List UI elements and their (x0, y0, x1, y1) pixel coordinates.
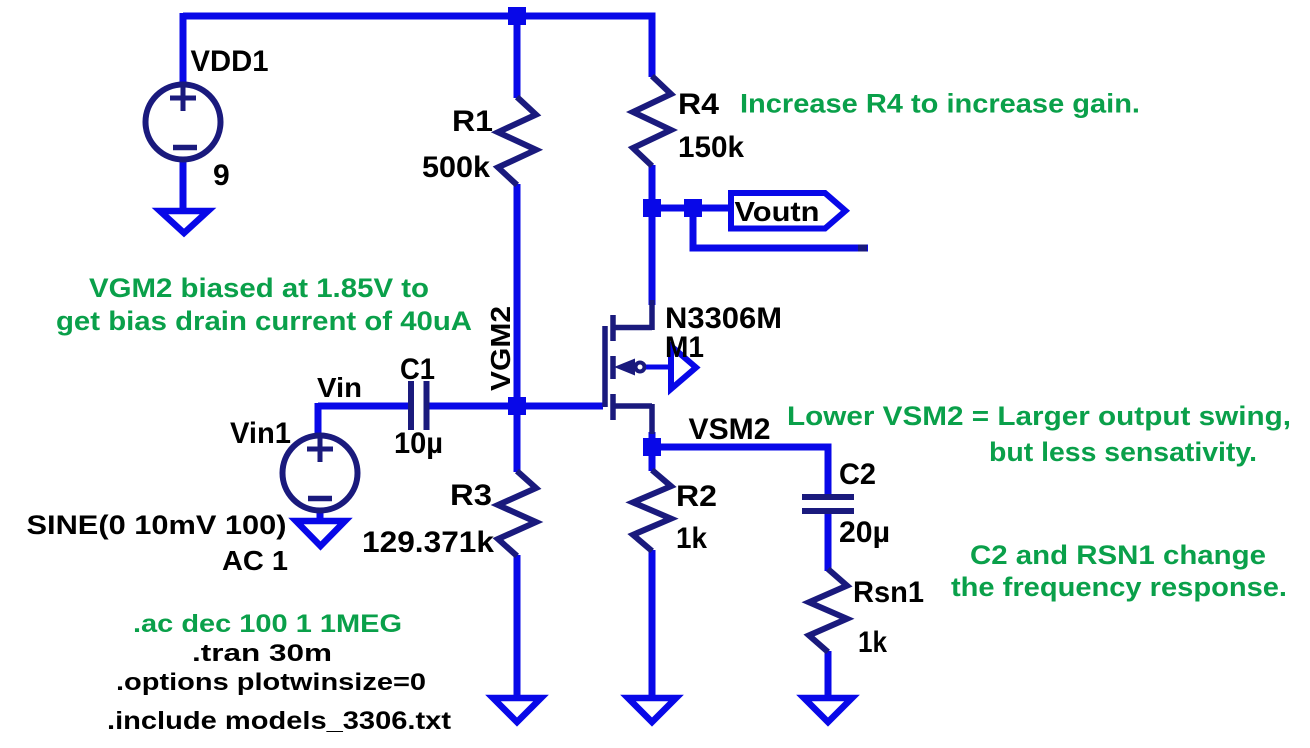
transistor M1 bulk arrow (614, 359, 635, 376)
svg-text:9: 9 (213, 159, 230, 192)
wire R1 to node VGM2 (514, 184, 521, 407)
ground (R3 column) (493, 698, 541, 722)
port flag Voutn (731, 193, 846, 229)
svg-text:get bias drain current of 40uA: get bias drain current of 40uA (56, 306, 472, 336)
svg-text:20µ: 20µ (839, 516, 890, 549)
ground (Vin1) (296, 521, 345, 546)
svg-text:C2 and RSN1 change: C2 and RSN1 change (970, 540, 1266, 570)
wire C2 corner drop (825, 444, 832, 496)
voltage source Vin1 (283, 436, 358, 511)
junction node Voutn / R4 (643, 199, 661, 217)
resistor R2 (633, 470, 671, 551)
wire R4 top drop (649, 16, 656, 77)
svg-text:VSM2: VSM2 (689, 413, 771, 446)
wire R3 to ground (514, 555, 521, 700)
svg-text:.include models_3306.txt: .include models_3306.txt (107, 707, 452, 735)
svg-text:10µ: 10µ (394, 427, 443, 460)
svg-text:Vin: Vin (317, 372, 362, 403)
wire R4 to node Voutn (649, 165, 656, 208)
wire Voutn stub down (693, 208, 868, 248)
svg-text:.ac dec 100 1 1MEG: .ac dec 100 1 1MEG (133, 610, 402, 638)
wire VDD1 to ground (180, 160, 187, 212)
svg-text:150k: 150k (678, 131, 744, 164)
svg-text:1k: 1k (858, 626, 887, 659)
svg-text:129.371k: 129.371k (362, 526, 494, 559)
wire R1 top drop (514, 16, 521, 98)
node arrow (bulk) (671, 346, 696, 389)
svg-text:1k: 1k (676, 522, 707, 555)
resistor Rsn1 (809, 569, 847, 652)
wire VGM2 node to R3 (514, 406, 521, 472)
ground (VDD1) (160, 211, 208, 233)
wire VDD1 drop (180, 13, 187, 84)
svg-text:R1: R1 (452, 105, 493, 138)
capacitor C1 (411, 381, 427, 430)
wire C1 to VGM2 node (429, 403, 517, 410)
svg-text:.tran 30m: .tran 30m (192, 640, 332, 667)
junction node VSM2 (643, 438, 661, 456)
svg-text:C1: C1 (400, 353, 435, 386)
resistor R4 (633, 76, 671, 166)
svg-text:Voutn: Voutn (735, 196, 820, 227)
junction node top rail / R1 (508, 7, 526, 25)
wire Vin1 drop (315, 403, 322, 436)
ground (R2 column) (628, 698, 676, 722)
voltage source VDD1 (146, 85, 221, 160)
svg-text:SINE(0 10mV 100): SINE(0 10mV 100) (27, 510, 287, 540)
junction node Voutn flag stub (684, 199, 702, 217)
svg-text:Lower VSM2 = Larger output swi: Lower VSM2 = Larger output swing, (787, 401, 1291, 431)
svg-text:Rsn1: Rsn1 (853, 576, 924, 609)
wire M1 bulk to arrow (646, 365, 670, 370)
ground (Rsn1 column) (804, 698, 852, 722)
wire M1 source down (649, 432, 656, 447)
wire VSM2 node to R2 (649, 447, 656, 471)
svg-text:500k: 500k (422, 151, 490, 184)
resistor R1 (498, 97, 536, 185)
wire R2 to ground (649, 550, 656, 700)
svg-text:VGM2: VGM2 (485, 306, 516, 391)
resistor R3 (498, 471, 536, 556)
capacitor C2 (802, 497, 854, 511)
wire Voutn node to M1 drain (649, 208, 656, 305)
svg-text:R4: R4 (678, 88, 719, 121)
wire end tip (858, 245, 867, 252)
wire Voutn node to flag (652, 205, 729, 212)
svg-text:but less sensativity.: but less sensativity. (989, 437, 1257, 467)
svg-text:VDD1: VDD1 (191, 45, 269, 78)
wire C2 to Rsn1 (825, 513, 832, 571)
junction node VGM2 (508, 397, 526, 415)
svg-text:M1: M1 (665, 331, 704, 364)
wire Rsn1 to ground (825, 651, 832, 700)
svg-text:R3: R3 (450, 479, 492, 512)
svg-text:the frequency response.: the frequency response. (951, 572, 1287, 602)
wire VGM2 node to M1 gate (517, 403, 603, 410)
svg-text:.options plotwinsize=0: .options plotwinsize=0 (116, 669, 426, 696)
svg-text:R2: R2 (676, 480, 717, 513)
wire VSM2 node to C2 (652, 444, 825, 451)
svg-text:C2: C2 (839, 458, 876, 491)
wire Vin to C1 (318, 403, 408, 410)
transistor M1 (NMOS N3306M) (605, 300, 652, 434)
wire Vin1 to ground (317, 511, 324, 521)
svg-text:Increase R4 to increase gain.: Increase R4 to increase gain. (740, 89, 1140, 119)
svg-text:VGM2 biased at 1.85V to: VGM2 biased at 1.85V to (89, 273, 429, 303)
svg-text:AC 1: AC 1 (222, 545, 288, 576)
svg-text:Vin1: Vin1 (230, 417, 291, 450)
wire top rail VDD to R4 (183, 13, 656, 20)
